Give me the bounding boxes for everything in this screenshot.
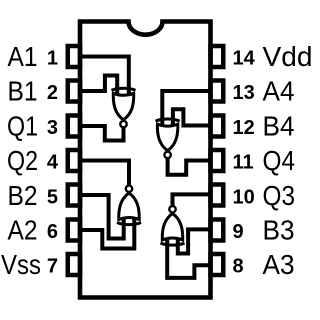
svg-text:A1: A1 [8, 41, 38, 72]
pin 11 box [211, 150, 224, 171]
svg-text:Q3: Q3 [263, 180, 296, 211]
svg-text:2: 2 [47, 82, 58, 104]
pin 10 box [211, 185, 224, 206]
svg-text:A3: A3 [263, 249, 295, 280]
svg-text:A4: A4 [263, 76, 295, 107]
svg-text:Vdd: Vdd [263, 41, 313, 72]
pin 8 box [211, 254, 224, 275]
svg-text:Q1: Q1 [7, 110, 38, 141]
svg-text:14: 14 [233, 48, 256, 70]
svg-text:A2: A2 [8, 215, 38, 246]
pin 4 box [68, 150, 80, 171]
wire pin1 A1 to gate1 right input [80, 57, 129, 97]
pin 13 box [211, 81, 224, 102]
wire pin8 A3 to gate4 left input [167, 237, 210, 278]
XNOR gate U1C [117, 186, 141, 225]
pin 6 box [68, 220, 80, 241]
svg-text:B1: B1 [8, 76, 38, 107]
wire pin9 B3 to gate4 right input [178, 229, 211, 253]
svg-text:6: 6 [47, 221, 58, 243]
pin 5 box [68, 185, 80, 206]
svg-text:Q2: Q2 [7, 145, 38, 176]
XNOR gate U1B [156, 119, 180, 158]
wire gate4 output to pin10 Q3 [173, 194, 211, 205]
pin 2 box [68, 81, 80, 102]
svg-text:11: 11 [233, 152, 254, 174]
wire gate1 output to pin3 Q1 [80, 126, 124, 141]
XNOR gate U1D [161, 206, 185, 245]
IC body U1 (DIP-14 outline with notch) [80, 22, 211, 298]
wire pin6 A2 to gate3 right input [80, 216, 134, 248]
XNOR gate U1A [112, 88, 136, 127]
wire gate2 output to pin11 Q4 [168, 159, 211, 175]
svg-text:7: 7 [47, 256, 58, 278]
svg-text:10: 10 [233, 186, 255, 208]
svg-text:B3: B3 [263, 215, 295, 246]
svg-text:3: 3 [47, 117, 58, 139]
svg-text:13: 13 [233, 82, 255, 104]
svg-text:5: 5 [47, 186, 58, 208]
pin 9 box [211, 220, 224, 241]
wire pin13 A4 to gate2 left input [162, 91, 210, 127]
wire pin12 B4 to gate2 right input [173, 109, 211, 127]
pin 3 box [68, 116, 80, 137]
svg-text:1: 1 [47, 48, 58, 70]
wire pin5 B2 to gate3 left input [80, 195, 124, 239]
svg-text:B4: B4 [263, 110, 295, 141]
pin 14 box [211, 46, 224, 67]
pin 12 box [211, 116, 224, 137]
svg-text:4: 4 [47, 152, 59, 174]
svg-text:8: 8 [233, 256, 244, 278]
svg-text:Vss: Vss [1, 249, 41, 280]
pin 7 box [68, 254, 80, 275]
svg-text:9: 9 [233, 221, 244, 243]
svg-text:12: 12 [233, 117, 255, 139]
wire pin4 Q2 to gate3 output [80, 161, 129, 185]
wire pin2 B1 to gate1 left input [80, 76, 117, 97]
svg-text:B2: B2 [8, 180, 38, 211]
svg-text:Q4: Q4 [263, 145, 296, 176]
pin 1 box [68, 46, 80, 67]
